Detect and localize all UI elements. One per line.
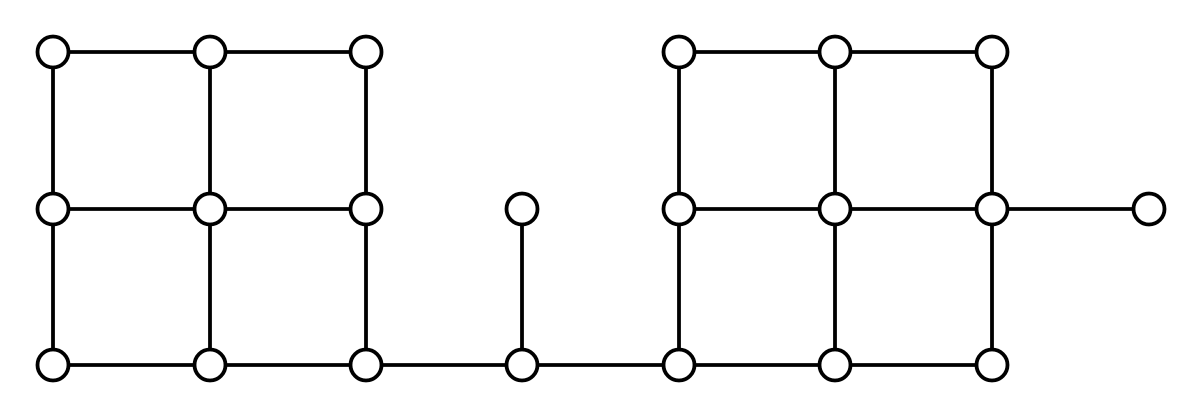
node E2 [820,194,851,225]
wire edge C1-C2 [53,363,210,367]
node M2 [507,350,538,381]
node C2 [195,350,226,381]
node B1 [38,194,69,225]
wire edge M1-M2 [520,209,524,365]
wire edge E2-G2 [833,209,837,365]
node C3 [351,350,382,381]
node G2 [820,350,851,381]
wire edge M2-G1 [522,363,679,367]
node A1 [38,37,69,68]
wire edge A1-A2 [53,50,210,54]
node D2 [820,37,851,68]
wire edge D1-D2 [679,50,835,54]
wire edge E3-G3 [990,209,994,365]
wire edge B1-B2 [53,207,210,211]
node E3 [977,194,1008,225]
node G1 [664,350,695,381]
wire edge E1-G1 [677,209,681,365]
node E1 [664,194,695,225]
wire edge B1-C1 [51,209,55,365]
wire edge C2-C3 [210,363,366,367]
wire edge A2-B2 [208,52,212,209]
node M1 [507,194,538,225]
wire edge B3-C3 [364,209,368,365]
wire edge C3-M2 [366,363,522,367]
wire edge E3-F1 [992,207,1149,211]
node D1 [664,37,695,68]
wire edge D3-E3 [990,52,994,209]
node C1 [38,350,69,381]
wire edge A3-B3 [364,52,368,209]
node F1 [1134,194,1165,225]
wire edge A1-B1 [51,52,55,209]
node G3 [977,350,1008,381]
wire edge G2-G3 [835,363,992,367]
wire edge D2-D3 [835,50,992,54]
node B3 [351,194,382,225]
wire edge D1-E1 [677,52,681,209]
node B2 [195,194,226,225]
wire edge B2-B3 [210,207,366,211]
node A3 [351,37,382,68]
node D3 [977,37,1008,68]
wire edge A2-A3 [210,50,366,54]
wire edge D2-E2 [833,52,837,209]
node A2 [195,37,226,68]
wire edge G1-G2 [679,363,835,367]
wire edge E1-E2 [679,207,835,211]
wire edge E2-E3 [835,207,992,211]
wire edge B2-C2 [208,209,212,365]
